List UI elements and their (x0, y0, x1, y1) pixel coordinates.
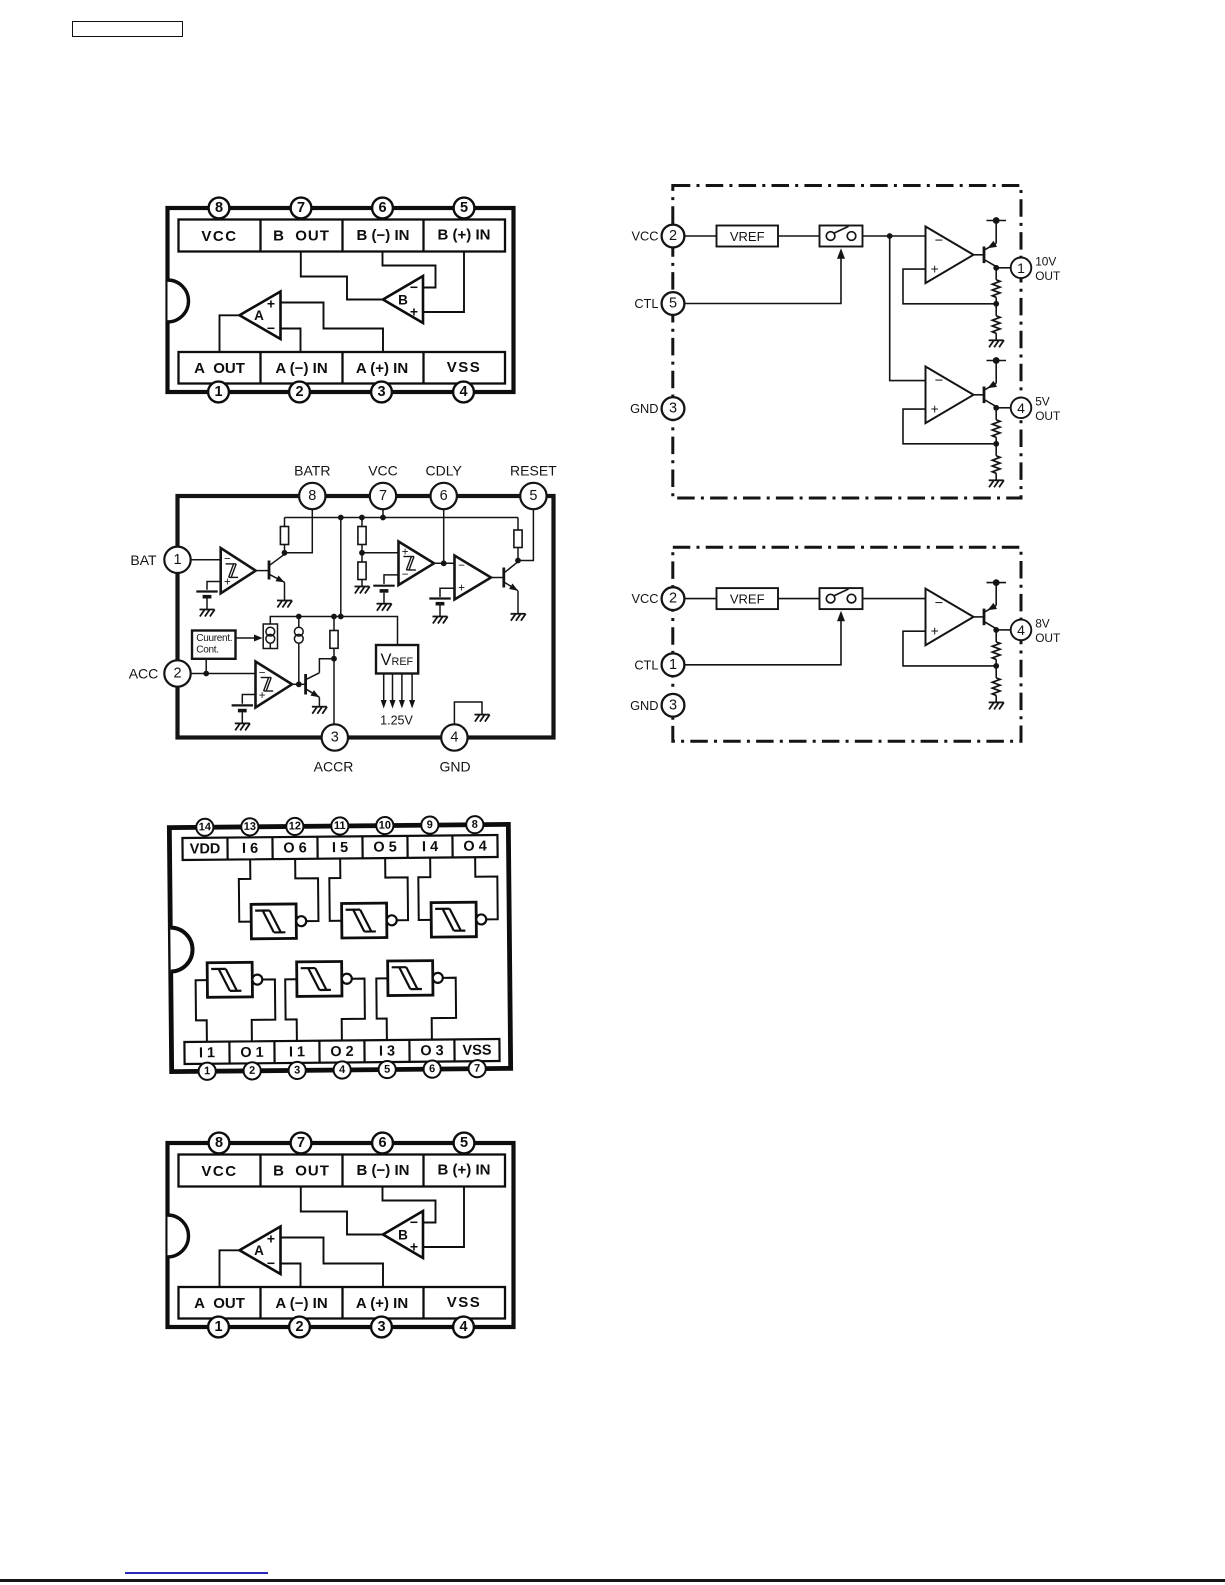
svg-text:8: 8 (215, 200, 223, 216)
svg-text:OUT: OUT (1035, 269, 1060, 283)
svg-text:B (+) IN: B (+) IN (438, 1162, 491, 1179)
resistor R2 divider top (361, 518, 363, 527)
svg-text:ACCR: ACCR (314, 759, 354, 775)
svg-text:4: 4 (1017, 400, 1025, 416)
svg-text:5: 5 (529, 488, 537, 504)
svg-text:−: − (267, 320, 275, 336)
pin 7 stub wire (382, 509, 384, 518)
pin 5 (378, 1061, 395, 1078)
svg-text:2: 2 (295, 1319, 303, 1335)
wire node to pin 6 CDLY (443, 509, 445, 563)
svg-text:VCC: VCC (631, 591, 658, 606)
pin 1 BAT (164, 547, 190, 573)
power rail stub with node, stage 1 (995, 221, 997, 244)
IC package outline U1 (168, 1143, 514, 1327)
pin 2 (VCC) (662, 587, 685, 610)
bottom pin-name row box (179, 1287, 506, 1319)
svg-text:VCC: VCC (201, 228, 237, 245)
svg-text:+: + (259, 690, 266, 702)
comparator 2 (VCC detect) (399, 542, 435, 586)
svg-text:VREF: VREF (730, 229, 765, 244)
svg-text:−: − (402, 569, 409, 581)
feedback divider resistor R1 (995, 268, 997, 280)
svg-text:5: 5 (460, 1135, 468, 1151)
output node dot, stage 2 (993, 405, 999, 411)
wire op-amp A output to A OUT (220, 1250, 240, 1287)
pin 7 (291, 198, 312, 219)
node R1/Q1 collector (282, 550, 288, 556)
wire inverter 1 output to pin (295, 859, 318, 922)
reference battery for comparator 4 (232, 705, 253, 723)
pin 7 VCC (370, 483, 396, 509)
svg-text:BATR: BATR (294, 463, 330, 479)
wire comparator 1 output to Q1 base (256, 570, 269, 572)
svg-text:I 5: I 5 (332, 840, 348, 856)
svg-text:VSS: VSS (462, 1043, 491, 1059)
svg-text:7: 7 (474, 1063, 480, 1075)
svg-text:+: + (267, 296, 275, 312)
resistor R3 divider bottom (358, 562, 366, 580)
pin 8 (209, 1133, 230, 1154)
svg-text:4: 4 (450, 730, 458, 746)
svg-text:−: − (458, 560, 465, 572)
svg-text:A (−) IN: A (−) IN (275, 1295, 327, 1312)
output node dot, stage 1 (993, 627, 999, 633)
pin 10 (376, 817, 393, 834)
VREF block (717, 588, 779, 609)
svg-text:Cont.: Cont. (196, 645, 218, 656)
inverter 5 bubble (342, 974, 352, 984)
svg-text:I 6: I 6 (242, 841, 258, 857)
wire VREF to switch (778, 235, 820, 237)
VREF block (376, 645, 418, 674)
svg-text:2: 2 (173, 666, 181, 682)
feedback wire to + input, stage 2 (903, 409, 996, 444)
svg-text:CTL: CTL (634, 657, 658, 672)
divider tap node, stage 2 (993, 441, 999, 447)
node Q3 collector (515, 558, 521, 564)
svg-text:VSS: VSS (447, 1294, 482, 1311)
wire Q1 emitter to ground (284, 582, 286, 600)
svg-text:4: 4 (459, 1319, 467, 1335)
block outline (178, 496, 554, 738)
inverter 4 bubble (252, 975, 262, 985)
ground Q4 emitter (312, 707, 327, 714)
comparator 3 (delay) (455, 556, 492, 600)
pin 14 (196, 819, 213, 836)
current source CS1 in box (263, 624, 277, 649)
wire input pin to inverter 3 (418, 858, 431, 920)
svg-text:7: 7 (379, 488, 387, 504)
svg-text:4: 4 (1017, 622, 1025, 638)
wire input pin to inverter 6 (376, 978, 388, 1040)
svg-text:O 5: O 5 (373, 839, 397, 855)
error amplifier 1 (926, 227, 974, 284)
wire output node to pin 4 (996, 629, 1011, 631)
svg-text:BAT: BAT (130, 552, 157, 568)
svg-text:VREF: VREF (730, 592, 765, 607)
wire B OUT to op-amp B output (301, 252, 383, 300)
svg-text:−: − (410, 1214, 418, 1230)
output pin 1 circle (1011, 258, 1032, 279)
wire comparator 4 + input to reference (242, 695, 255, 704)
wire comparator 4 output to Q4 base (292, 683, 306, 685)
svg-text:2: 2 (295, 384, 303, 400)
wire comparator 1 + input to reference (207, 582, 221, 590)
svg-text:3: 3 (377, 384, 385, 400)
pin 3 (371, 1317, 392, 1338)
pin 12 (286, 818, 303, 835)
ground, stage 1 (989, 702, 1004, 709)
pin-1 index notch (168, 1215, 189, 1257)
schmitt inverter 1 box (251, 904, 296, 939)
svg-text:3: 3 (294, 1064, 300, 1076)
svg-text:8: 8 (308, 488, 316, 504)
svg-text:+: + (267, 1231, 275, 1247)
svg-text:7: 7 (297, 200, 305, 216)
svg-text:GND: GND (630, 698, 658, 713)
svg-text:6: 6 (378, 1135, 386, 1151)
wire pin 1 BAT to comparator 1 input (191, 559, 221, 561)
wire Q4 emitter to ground (318, 697, 320, 706)
wire CS2 to Q4 base node (298, 643, 300, 684)
pin 6 (423, 1060, 440, 1077)
reference battery for comparator 2 (373, 586, 394, 604)
pin 2 (243, 1062, 260, 1079)
node rail-to-lower-rail (338, 515, 344, 521)
svg-text:VSS: VSS (447, 359, 482, 376)
svg-text:−: − (267, 1255, 275, 1271)
wire inverter 6 output to pin (431, 978, 456, 1040)
current source CS2 (298, 617, 300, 628)
inverter 3 bubble (476, 914, 486, 924)
reference battery for comparator 1 (196, 592, 217, 610)
wire VCC pin to VREF (684, 235, 716, 237)
wire amplifier 2 output to transistor base (974, 394, 985, 396)
pin-1 index notch (168, 280, 189, 322)
pin 9 (421, 816, 438, 833)
svg-text:1: 1 (669, 657, 677, 673)
svg-text:3: 3 (377, 1319, 385, 1335)
svg-text:VCC: VCC (631, 229, 658, 244)
pin 11 (331, 817, 348, 834)
dash-dot block border (673, 547, 1021, 741)
svg-text:+: + (458, 582, 465, 594)
wire switch to amplifiers inverting inputs (863, 235, 926, 237)
pin 1 (198, 1063, 215, 1080)
svg-text:OUT: OUT (1035, 631, 1060, 645)
wire amplifier 1 output to transistor base (974, 616, 985, 618)
wire comparator 2 output node (434, 562, 455, 564)
schmitt inverter 3 box (431, 902, 476, 937)
wire op-amp A inverting input to A(-) IN (281, 329, 301, 353)
pin 4 (333, 1061, 350, 1078)
svg-text:2: 2 (669, 228, 677, 244)
power rail stub with node, stage 1 (995, 583, 997, 606)
pin 3 (288, 1062, 305, 1079)
inverter 1 bubble (296, 916, 306, 926)
pin 4 GND (441, 724, 467, 750)
feedback divider resistor R2 (995, 666, 997, 678)
empty header box (72, 21, 183, 37)
svg-text:+: + (931, 624, 939, 639)
comparator 4 (ACC detect) (256, 662, 293, 708)
node R4 bottom / Q4 collector (331, 656, 337, 662)
feedback divider resistor R2 (995, 304, 997, 316)
pin 6 (372, 198, 393, 219)
feedback divider resistor R4 (995, 444, 997, 456)
svg-text:B (−) IN: B (−) IN (357, 1162, 410, 1179)
op-amp A (240, 292, 281, 340)
wire input pin to inverter 2 (329, 858, 342, 920)
pin 6 (372, 1133, 393, 1154)
schmitt inverter 5 box (297, 961, 342, 996)
output pin 4 circle (1011, 398, 1032, 419)
pin 8 (466, 816, 483, 833)
pin 8 BATR (299, 483, 325, 509)
wire comparator 3 output to Q3 base (491, 577, 504, 579)
svg-text:A (+) IN: A (+) IN (356, 1295, 408, 1312)
svg-text:14: 14 (199, 821, 212, 833)
svg-text:10V: 10V (1035, 255, 1056, 269)
divider tap node, stage 1 (993, 301, 999, 307)
svg-text:1.25V: 1.25V (380, 714, 413, 728)
pin 1 (CTL) (662, 653, 685, 676)
resistor R1 (284, 518, 286, 527)
top pin-name row box (179, 220, 506, 252)
svg-text:A (+) IN: A (+) IN (356, 360, 408, 377)
pin 4 (453, 382, 474, 403)
transistor Q4 (304, 674, 307, 695)
ground, stage 2 (989, 480, 1004, 487)
pin-1 index notch (170, 927, 192, 971)
svg-text:ACC: ACC (129, 666, 159, 682)
resistor R5 pull-up (517, 518, 519, 531)
svg-text:11: 11 (334, 820, 346, 832)
svg-text:B OUT: B OUT (273, 228, 330, 245)
wire comparator 3 + input to reference (440, 588, 455, 597)
wire pin 4 GND to ground (454, 702, 482, 724)
svg-text:13: 13 (244, 821, 256, 833)
ground, stage 1 (989, 340, 1004, 347)
wire VCC rail to lower rail (340, 518, 342, 617)
svg-text:4: 4 (459, 384, 467, 400)
inverter 2 bubble (387, 915, 397, 925)
block diagram: single regulator 8V (620, 532, 1100, 757)
node divider tap (359, 550, 365, 556)
wire switch to amplifier inverting input (863, 598, 926, 600)
pin 7 (468, 1060, 485, 1077)
IC package outline U3 (169, 824, 510, 1071)
bottom pin-name row box (179, 352, 506, 384)
pin 2 (VCC) (662, 225, 685, 248)
svg-text:1: 1 (173, 552, 181, 568)
svg-text:VCC: VCC (368, 463, 398, 479)
svg-text:1: 1 (214, 384, 222, 400)
pin 8 (209, 198, 230, 219)
svg-text:RESET: RESET (510, 463, 557, 479)
pin 13 (241, 818, 258, 835)
svg-text:O 6: O 6 (283, 840, 307, 856)
wire Q3 emitter to ground (517, 591, 519, 614)
pin 3 ACCR (322, 724, 348, 750)
svg-text:A OUT: A OUT (194, 1295, 245, 1312)
diagram 2: reset/detector IC internal schematic (115, 455, 575, 790)
pin 5 RESET (520, 483, 546, 509)
feedback divider resistor R3 (995, 408, 997, 420)
comparator 1 (BAT detect) (221, 548, 256, 593)
pass transistor Q1 (983, 247, 986, 264)
svg-text:−: − (935, 233, 943, 249)
wire inverter 2 output to pin (385, 858, 408, 921)
wire input pin to inverter 5 (285, 979, 297, 1041)
svg-text:8: 8 (215, 1135, 223, 1151)
schmitt inverter 6 box (388, 961, 433, 996)
wire inverter 5 output to pin (341, 979, 365, 1041)
svg-text:−: − (935, 373, 943, 389)
wire CTL pin to switch control with arrow (684, 257, 841, 304)
svg-text:2: 2 (669, 591, 677, 607)
wire output node to pin 1 (996, 267, 1011, 269)
svg-text:5: 5 (460, 200, 468, 216)
power rail stub with node, stage 2 (995, 361, 997, 384)
svg-text:A OUT: A OUT (194, 360, 245, 377)
svg-text:8V: 8V (1035, 617, 1050, 631)
divider tap node, stage 1 (993, 663, 999, 669)
op-amp A (240, 1227, 281, 1275)
svg-text:Cuurent.: Cuurent. (196, 633, 232, 644)
output pin 4 circle (1011, 620, 1032, 641)
svg-text:6: 6 (429, 1063, 435, 1075)
VREF output arrows (383, 674, 385, 702)
svg-text:OUT: OUT (1035, 409, 1060, 423)
svg-text:VCC: VCC (201, 1163, 237, 1180)
svg-text:B: B (398, 293, 408, 308)
bottom pin-name row box (184, 1039, 499, 1064)
wire VCC pin to VREF (684, 598, 716, 600)
arrow current control to CS1 (236, 637, 257, 639)
svg-text:O 3: O 3 (420, 1043, 444, 1059)
svg-text:4: 4 (339, 1064, 346, 1076)
pin 7 (291, 1133, 312, 1154)
svg-text:5: 5 (384, 1064, 390, 1076)
wire op-amp A inverting input to A(-) IN (281, 1264, 301, 1288)
wire Q3 collector to pin 5 RESET (518, 509, 533, 561)
op-amp B (383, 276, 423, 323)
wire pin 2 ACC to comparator 4 input (191, 673, 256, 675)
transistor Q1 (268, 561, 271, 580)
wire node to current control box (205, 659, 207, 674)
feedback wire to + input, stage 1 (903, 631, 996, 666)
reference battery for comparator 3 (429, 599, 450, 617)
ground Q3 emitter (511, 614, 526, 621)
svg-text:5V: 5V (1035, 395, 1050, 409)
svg-text:VDD: VDD (190, 841, 221, 857)
svg-text:9: 9 (427, 819, 433, 831)
top pin-name row box (179, 1155, 506, 1187)
svg-text:O 2: O 2 (330, 1044, 354, 1060)
svg-text:B OUT: B OUT (273, 1163, 330, 1180)
svg-text:10: 10 (379, 820, 391, 832)
schmitt inverter 4 box (207, 962, 252, 997)
svg-text:B (+) IN: B (+) IN (438, 227, 491, 244)
svg-text:2: 2 (249, 1065, 255, 1077)
ground divider (355, 587, 370, 594)
lower rail wire (270, 617, 397, 646)
pass transistor Q1 (983, 609, 986, 626)
svg-text:6: 6 (378, 200, 386, 216)
VCC rail wire (285, 517, 519, 519)
resistor R4 (333, 617, 335, 631)
top pin-name row box (182, 835, 497, 860)
wire op-amp A output to A OUT (220, 315, 240, 352)
schmitt inverter 2 box (342, 903, 387, 938)
svg-text:1: 1 (204, 1065, 210, 1077)
wire op-amp A non-inverting input to A(+) IN (281, 303, 384, 353)
transistor Q3 (502, 568, 505, 588)
svg-text:A (−) IN: A (−) IN (275, 360, 327, 377)
svg-text:8: 8 (472, 819, 478, 831)
pin 4 (453, 1317, 474, 1338)
pass transistor Q2 (983, 387, 986, 404)
svg-text:+: + (410, 1239, 418, 1255)
svg-text:GND: GND (439, 759, 470, 775)
wire B(-) IN to op-amp B inverting input (383, 252, 436, 288)
pin 2 (289, 382, 310, 403)
svg-text:B (−) IN: B (−) IN (357, 227, 410, 244)
error amplifier 1 (926, 589, 974, 646)
node ACC / current control (203, 671, 209, 677)
IC package outline U1 (168, 208, 514, 392)
svg-text:I 3: I 3 (379, 1043, 395, 1059)
wire inverter 3 output to pin (475, 857, 498, 920)
pin 5 (454, 1133, 475, 1154)
pin 3 (GND) (662, 397, 685, 420)
svg-text:12: 12 (289, 820, 301, 832)
wire B(-) IN to op-amp B inverting input (383, 1187, 436, 1223)
feedback wire to + input, stage 1 (903, 269, 996, 304)
svg-text:+: + (931, 402, 939, 417)
ground pin 4 (475, 715, 490, 722)
svg-text:CTL: CTL (634, 296, 658, 311)
block diagram: dual regulator 10V/5V (620, 170, 1100, 515)
node divider top (359, 515, 365, 521)
svg-text:O 4: O 4 (463, 839, 487, 855)
wire Q4 collector to R4 node (319, 659, 334, 673)
svg-text:I 1: I 1 (199, 1045, 215, 1061)
svg-text:5: 5 (669, 296, 677, 312)
wire comparator 2 - input to reference (384, 575, 399, 584)
footer page rule (0, 1579, 1225, 1582)
pin 5 (454, 198, 475, 219)
pin 2 ACC (164, 660, 190, 686)
pin 6 CDLY (431, 483, 457, 509)
diagram 4: dual op-amp pinout U4 (150, 1125, 530, 1345)
switch SW1 (820, 226, 863, 247)
pin 2 (289, 1317, 310, 1338)
svg-text:−: − (410, 279, 418, 295)
inverter 6 bubble (433, 973, 443, 983)
svg-text:I 4: I 4 (422, 839, 438, 855)
VREF block (717, 226, 779, 247)
diagram 3: hex schmitt inverter pinout U3 (149, 803, 532, 1092)
svg-text:CDLY: CDLY (426, 463, 463, 479)
wire B(+) IN to op-amp B non-inverting input (423, 252, 464, 313)
wire pin 8 BATR to Q1 collector node (285, 509, 313, 553)
wire inverter 4 output to pin (251, 979, 275, 1041)
svg-text:I 1: I 1 (289, 1044, 305, 1060)
svg-text:1: 1 (1017, 260, 1025, 276)
